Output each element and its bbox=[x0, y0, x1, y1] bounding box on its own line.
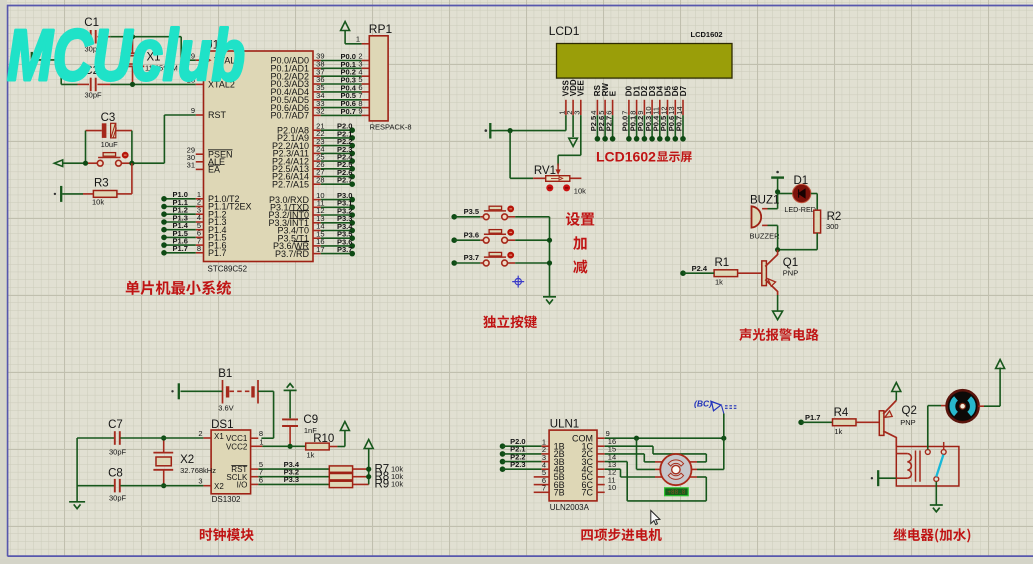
title stepper motor bbox=[581, 528, 661, 541]
svg-text:6: 6 bbox=[604, 111, 613, 115]
capacitor C3 10uF bbox=[86, 112, 132, 149]
svg-text:32.768kHz: 32.768kHz bbox=[180, 466, 216, 475]
svg-text:STC89C52: STC89C52 bbox=[208, 265, 248, 274]
svg-text:P2.7/A15: P2.7/A15 bbox=[272, 179, 309, 189]
driver ULN1 ULN2003A bbox=[549, 419, 597, 513]
wire R2 bottom to collector node bbox=[778, 233, 818, 250]
svg-text:D7: D7 bbox=[679, 85, 688, 96]
RV1 adjust buttons bbox=[546, 184, 570, 191]
svg-text:P1.7: P1.7 bbox=[805, 413, 820, 422]
svg-text:10: 10 bbox=[608, 483, 616, 492]
wire battery left to power bar bbox=[181, 390, 223, 392]
svg-text:30pF: 30pF bbox=[109, 494, 127, 503]
svg-text:P3.7/RD: P3.7/RD bbox=[275, 249, 310, 259]
resistor R3 10k bbox=[92, 178, 117, 207]
svg-text:C3: C3 bbox=[101, 112, 116, 124]
buzzer BUZ1 bbox=[750, 195, 781, 241]
node junction reset left bbox=[83, 161, 88, 166]
node junction X1 row bbox=[161, 435, 166, 440]
stepper motor bbox=[655, 454, 697, 485]
ground clock bbox=[69, 502, 85, 509]
wire COM row bbox=[605, 437, 724, 439]
LCD control/data wires with terminals bbox=[589, 115, 686, 142]
U1 right pin stubs P3 and numbers bbox=[313, 191, 325, 254]
potentiometer RV1 10k bbox=[510, 131, 586, 196]
MCU U1 STC89C52 bbox=[204, 40, 314, 274]
wire pullup rail to power bbox=[353, 448, 369, 484]
svg-text:VEE: VEE bbox=[577, 80, 586, 97]
reset button bbox=[97, 152, 128, 166]
power arrow pump bbox=[996, 360, 1005, 369]
svg-text:R9: R9 bbox=[375, 479, 390, 491]
svg-text:P3.3: P3.3 bbox=[284, 475, 299, 484]
wire COM to motor right-middle bbox=[697, 438, 724, 469]
svg-text:PNP: PNP bbox=[783, 269, 798, 278]
svg-text:Q1: Q1 bbox=[783, 257, 798, 269]
power terminal alarm bbox=[771, 171, 784, 178]
wire R10 to power arrow bbox=[329, 430, 345, 447]
svg-text:9: 9 bbox=[191, 106, 195, 115]
svg-text:MCUclub: MCUclub bbox=[7, 16, 245, 96]
svg-text:P3.7: P3.7 bbox=[464, 253, 479, 262]
crystal X2 32.768kHz bbox=[153, 438, 216, 486]
resistor pack RP1 RESPACK-8 bbox=[369, 22, 412, 132]
mouse cursor bbox=[651, 511, 660, 525]
svg-text:B1: B1 bbox=[218, 368, 232, 380]
button P3.7 bbox=[451, 252, 549, 266]
wire LCD VDD to ground arrow bbox=[572, 115, 574, 137]
svg-text:LCD1602: LCD1602 bbox=[596, 149, 656, 165]
node junction rail P3.6 bbox=[547, 238, 552, 243]
button P3.5 bbox=[451, 206, 549, 220]
svg-text:(BC): (BC) bbox=[694, 399, 712, 409]
node junction D1 bbox=[775, 189, 780, 194]
svg-text:R3: R3 bbox=[94, 178, 109, 190]
svg-text:P0.7: P0.7 bbox=[675, 116, 684, 131]
button P3.6 bbox=[451, 229, 549, 243]
wire power rail to buzzer bbox=[777, 178, 779, 209]
node junction VCC2 bbox=[288, 444, 293, 449]
svg-text:P3.5: P3.5 bbox=[464, 207, 479, 216]
resistor R4 1k bbox=[833, 407, 857, 436]
svg-text:RP1: RP1 bbox=[369, 22, 393, 36]
node junction R8 bbox=[366, 474, 371, 479]
chip DS1 DS1302 bbox=[211, 419, 251, 504]
svg-text:1k: 1k bbox=[715, 278, 723, 287]
capacitor C8 30pF bbox=[77, 468, 203, 503]
svg-text:P2.4: P2.4 bbox=[692, 264, 708, 273]
svg-text:LCD1: LCD1 bbox=[549, 24, 580, 38]
svg-text:ULN1: ULN1 bbox=[550, 419, 579, 431]
svg-text:1k: 1k bbox=[834, 427, 842, 436]
transistor Q1 PNP bbox=[762, 250, 798, 295]
resistor R8 10k bbox=[329, 471, 403, 483]
node junction crystal bottom bbox=[130, 82, 135, 87]
svg-text:P0.7/AD7: P0.7/AD7 bbox=[270, 111, 309, 121]
LED D1 LED-RED bbox=[784, 175, 816, 214]
net terminals P1.0-P1.7 bbox=[161, 190, 196, 255]
RP1 pin 1 wire to power bbox=[345, 31, 369, 44]
svg-text:P0.7: P0.7 bbox=[341, 107, 356, 116]
relay lever bbox=[936, 455, 943, 477]
resistor R9 10k bbox=[329, 479, 403, 491]
svg-text:DS1: DS1 bbox=[211, 419, 233, 431]
power arrow R10 bbox=[340, 422, 349, 431]
svg-text:BUZZER: BUZZER bbox=[750, 232, 781, 241]
svg-text:X2: X2 bbox=[180, 454, 194, 466]
svg-text:3.6V: 3.6V bbox=[218, 404, 233, 413]
RP1 pins 2-9 bbox=[358, 52, 362, 116]
ground buttons bbox=[543, 297, 556, 304]
svg-text:7B: 7B bbox=[554, 488, 565, 498]
wire buzzer top pin bbox=[768, 208, 778, 210]
node junction COM left bbox=[634, 436, 639, 441]
title relay bbox=[893, 528, 970, 542]
node junction R7 bbox=[366, 467, 371, 472]
node junction reset right bbox=[129, 161, 134, 166]
DS1 pin stubs bbox=[198, 429, 263, 486]
resistor R1 1k bbox=[714, 257, 738, 287]
svg-text:31: 31 bbox=[187, 161, 195, 170]
title MCU minimal system bbox=[126, 280, 231, 295]
wire crystal top row to XTAL1 bbox=[61, 37, 196, 61]
transistor Q2 PNP bbox=[879, 400, 917, 446]
power terminal relay coil bbox=[877, 470, 879, 486]
power terminal LCD ground bar bbox=[485, 123, 497, 139]
power arrow RP1 bbox=[341, 22, 350, 31]
svg-text:P3.7: P3.7 bbox=[337, 245, 352, 254]
svg-text:10k: 10k bbox=[92, 198, 104, 207]
svg-text:10uF: 10uF bbox=[101, 140, 119, 149]
text set/add/sub bbox=[566, 212, 594, 273]
resistor R2 300 bbox=[814, 210, 842, 233]
wire COM to motor left-middle bbox=[637, 438, 656, 469]
wire 3C to motor right-bottom bbox=[605, 462, 707, 501]
node junction COM right bbox=[721, 436, 726, 441]
svg-text:P1.7: P1.7 bbox=[208, 248, 227, 258]
wires DS1 to pullups bbox=[258, 460, 329, 485]
node junction rail P3.7 bbox=[547, 260, 552, 265]
svg-text:X2: X2 bbox=[214, 482, 224, 491]
LCD1 LCD1602 display bbox=[549, 24, 732, 96]
ULN1 left pin stubs bbox=[534, 437, 549, 492]
capacitor C1 30pF bbox=[78, 17, 111, 53]
ground arrow VDD bbox=[569, 138, 578, 146]
svg-text:R4: R4 bbox=[834, 407, 849, 419]
svg-text:300: 300 bbox=[826, 222, 839, 231]
stepper angle display bbox=[665, 488, 689, 496]
svg-text:VCC2: VCC2 bbox=[226, 442, 248, 451]
svg-text:30pF: 30pF bbox=[109, 448, 127, 457]
svg-text:10k: 10k bbox=[391, 480, 403, 489]
svg-text:RESPACK-8: RESPACK-8 bbox=[370, 123, 412, 132]
wire Q1 emitter to ground bbox=[777, 295, 779, 311]
wire relay common to ground bbox=[935, 482, 937, 505]
wire 1C to motor right-top bbox=[605, 446, 707, 462]
net terminal P2.4 bbox=[680, 264, 714, 276]
svg-text:7C: 7C bbox=[581, 488, 593, 498]
wire 4C to motor left-bottom bbox=[605, 469, 655, 477]
U1 right pin stubs P0 and numbers bbox=[313, 52, 325, 116]
node junction crystal top bbox=[130, 34, 135, 39]
title alarm circuit bbox=[739, 328, 818, 341]
wire LCD VSS to ground bbox=[497, 115, 566, 130]
svg-text:R1: R1 bbox=[715, 257, 730, 269]
svg-text:DS1302: DS1302 bbox=[212, 495, 241, 504]
wire VCC2 row bbox=[262, 445, 305, 447]
net terminals P2.0-P2.7 bbox=[321, 122, 355, 187]
power arrow pullups bbox=[364, 440, 373, 449]
power terminal left of crystal rail bbox=[24, 52, 32, 68]
wire 2C to motor left-top bbox=[605, 454, 655, 462]
crystal X1 11.0592MHz bbox=[121, 37, 178, 85]
svg-text:14: 14 bbox=[675, 106, 684, 114]
svg-text:7: 7 bbox=[542, 484, 546, 493]
power arrow Q2 bbox=[892, 383, 901, 392]
wire R3 right to reset node bbox=[117, 163, 132, 194]
wire button common rail bbox=[549, 217, 551, 296]
wire contact to pump motor bbox=[928, 406, 947, 450]
svg-text:P1.7: P1.7 bbox=[173, 244, 188, 253]
node junction collector bbox=[775, 247, 780, 252]
U1 left pin stubs and numbers bbox=[187, 51, 204, 253]
wire R3 left to power bar bbox=[62, 193, 93, 195]
ground up C9 bbox=[284, 384, 297, 391]
pump motor bbox=[947, 390, 979, 422]
ground arrow terminal left bbox=[54, 160, 62, 167]
capacitor C7 30pF bbox=[77, 419, 203, 457]
svg-text:I/O: I/O bbox=[237, 481, 248, 490]
ground relay bbox=[930, 505, 943, 512]
wire ground to C9 bbox=[289, 390, 291, 418]
svg-text:LED-RED: LED-RED bbox=[784, 205, 816, 214]
svg-text:1: 1 bbox=[259, 437, 263, 446]
svg-text:+88.8: +88.8 bbox=[667, 489, 685, 496]
wire crystal bottom row to XTAL2 bbox=[61, 83, 196, 85]
LCD pin stubs and numbers bbox=[558, 100, 684, 115]
title clock module bbox=[200, 528, 254, 541]
power terminal battery bbox=[178, 383, 180, 399]
svg-text:P2.7: P2.7 bbox=[337, 176, 352, 185]
net terminals P2.0-P2.3 stepper bbox=[500, 437, 542, 472]
resistor R10 1k bbox=[306, 433, 335, 460]
svg-text:1: 1 bbox=[356, 35, 360, 44]
wire pump motor to power bbox=[978, 368, 1000, 407]
origin marker bbox=[512, 276, 524, 288]
relay bbox=[896, 442, 959, 486]
wire COM junction to probe bbox=[723, 414, 725, 439]
wire battery to VCC1 bbox=[258, 391, 274, 438]
wire reset row bbox=[63, 115, 196, 163]
wire R4 to Q2 base bbox=[856, 421, 879, 423]
resistor R7 10k bbox=[329, 463, 403, 475]
wire relay coil to terminal bbox=[879, 477, 896, 479]
svg-text:10k: 10k bbox=[574, 187, 586, 196]
svg-text:P2.3: P2.3 bbox=[510, 460, 525, 469]
svg-text:C9: C9 bbox=[303, 414, 318, 426]
node junction VSS/RV1 bbox=[508, 128, 513, 133]
ground arrow Q1 bbox=[773, 311, 783, 320]
svg-text:E: E bbox=[608, 90, 617, 96]
svg-text:EA: EA bbox=[208, 165, 220, 175]
svg-text:X1: X1 bbox=[214, 432, 224, 441]
wire left rail bbox=[34, 37, 62, 85]
U1 right pin stubs P2 and numbers bbox=[313, 121, 325, 184]
wire C3 right leg bbox=[131, 131, 133, 164]
svg-text:BUZ1: BUZ1 bbox=[750, 195, 779, 207]
wire LCD VEE to RV1 wiper bbox=[556, 115, 581, 175]
svg-text:ULN2003A: ULN2003A bbox=[550, 503, 590, 512]
svg-text:PNP: PNP bbox=[900, 418, 915, 427]
svg-text:1k: 1k bbox=[307, 451, 315, 460]
wire D1 to R2 bbox=[811, 194, 817, 211]
wire Q2 emitter to power bbox=[895, 391, 897, 400]
wire buzzer bottom pin to collector node bbox=[768, 225, 778, 249]
wire C3 left leg bbox=[85, 131, 87, 164]
wire power node to D1 bbox=[778, 193, 793, 195]
capacitor C2 30pF bbox=[78, 65, 111, 100]
node junction left rail bbox=[59, 57, 64, 62]
power terminal R3 bbox=[60, 186, 62, 202]
svg-text:9: 9 bbox=[358, 107, 362, 116]
voltage probe BC bbox=[694, 399, 738, 414]
svg-text:3: 3 bbox=[198, 477, 202, 486]
svg-text:3: 3 bbox=[573, 111, 582, 115]
svg-text:8: 8 bbox=[197, 244, 201, 253]
title independent buttons bbox=[483, 315, 537, 328]
net terminals P3.0-P3.7 bbox=[321, 191, 355, 256]
svg-text:Q2: Q2 bbox=[902, 405, 917, 417]
net terminal P1.7 bbox=[798, 413, 832, 425]
capacitor C9 1nF bbox=[282, 414, 318, 446]
svg-text:C8: C8 bbox=[108, 468, 123, 480]
svg-text:P2.7: P2.7 bbox=[604, 116, 613, 131]
svg-text:2: 2 bbox=[198, 429, 202, 438]
wire P0 bus to RP1 bbox=[321, 52, 370, 116]
battery B1 3.6V bbox=[218, 368, 258, 413]
svg-text:LCD1602: LCD1602 bbox=[691, 30, 723, 39]
svg-text:P3.6: P3.6 bbox=[464, 230, 479, 239]
node junction X2 row bbox=[161, 483, 166, 488]
wire cap rail to ground bbox=[76, 438, 78, 502]
svg-text:C7: C7 bbox=[108, 419, 123, 431]
wire R1 to Q1 base bbox=[738, 272, 762, 274]
svg-text:RST: RST bbox=[208, 110, 227, 120]
ULN1 right pin stubs bbox=[597, 429, 616, 492]
